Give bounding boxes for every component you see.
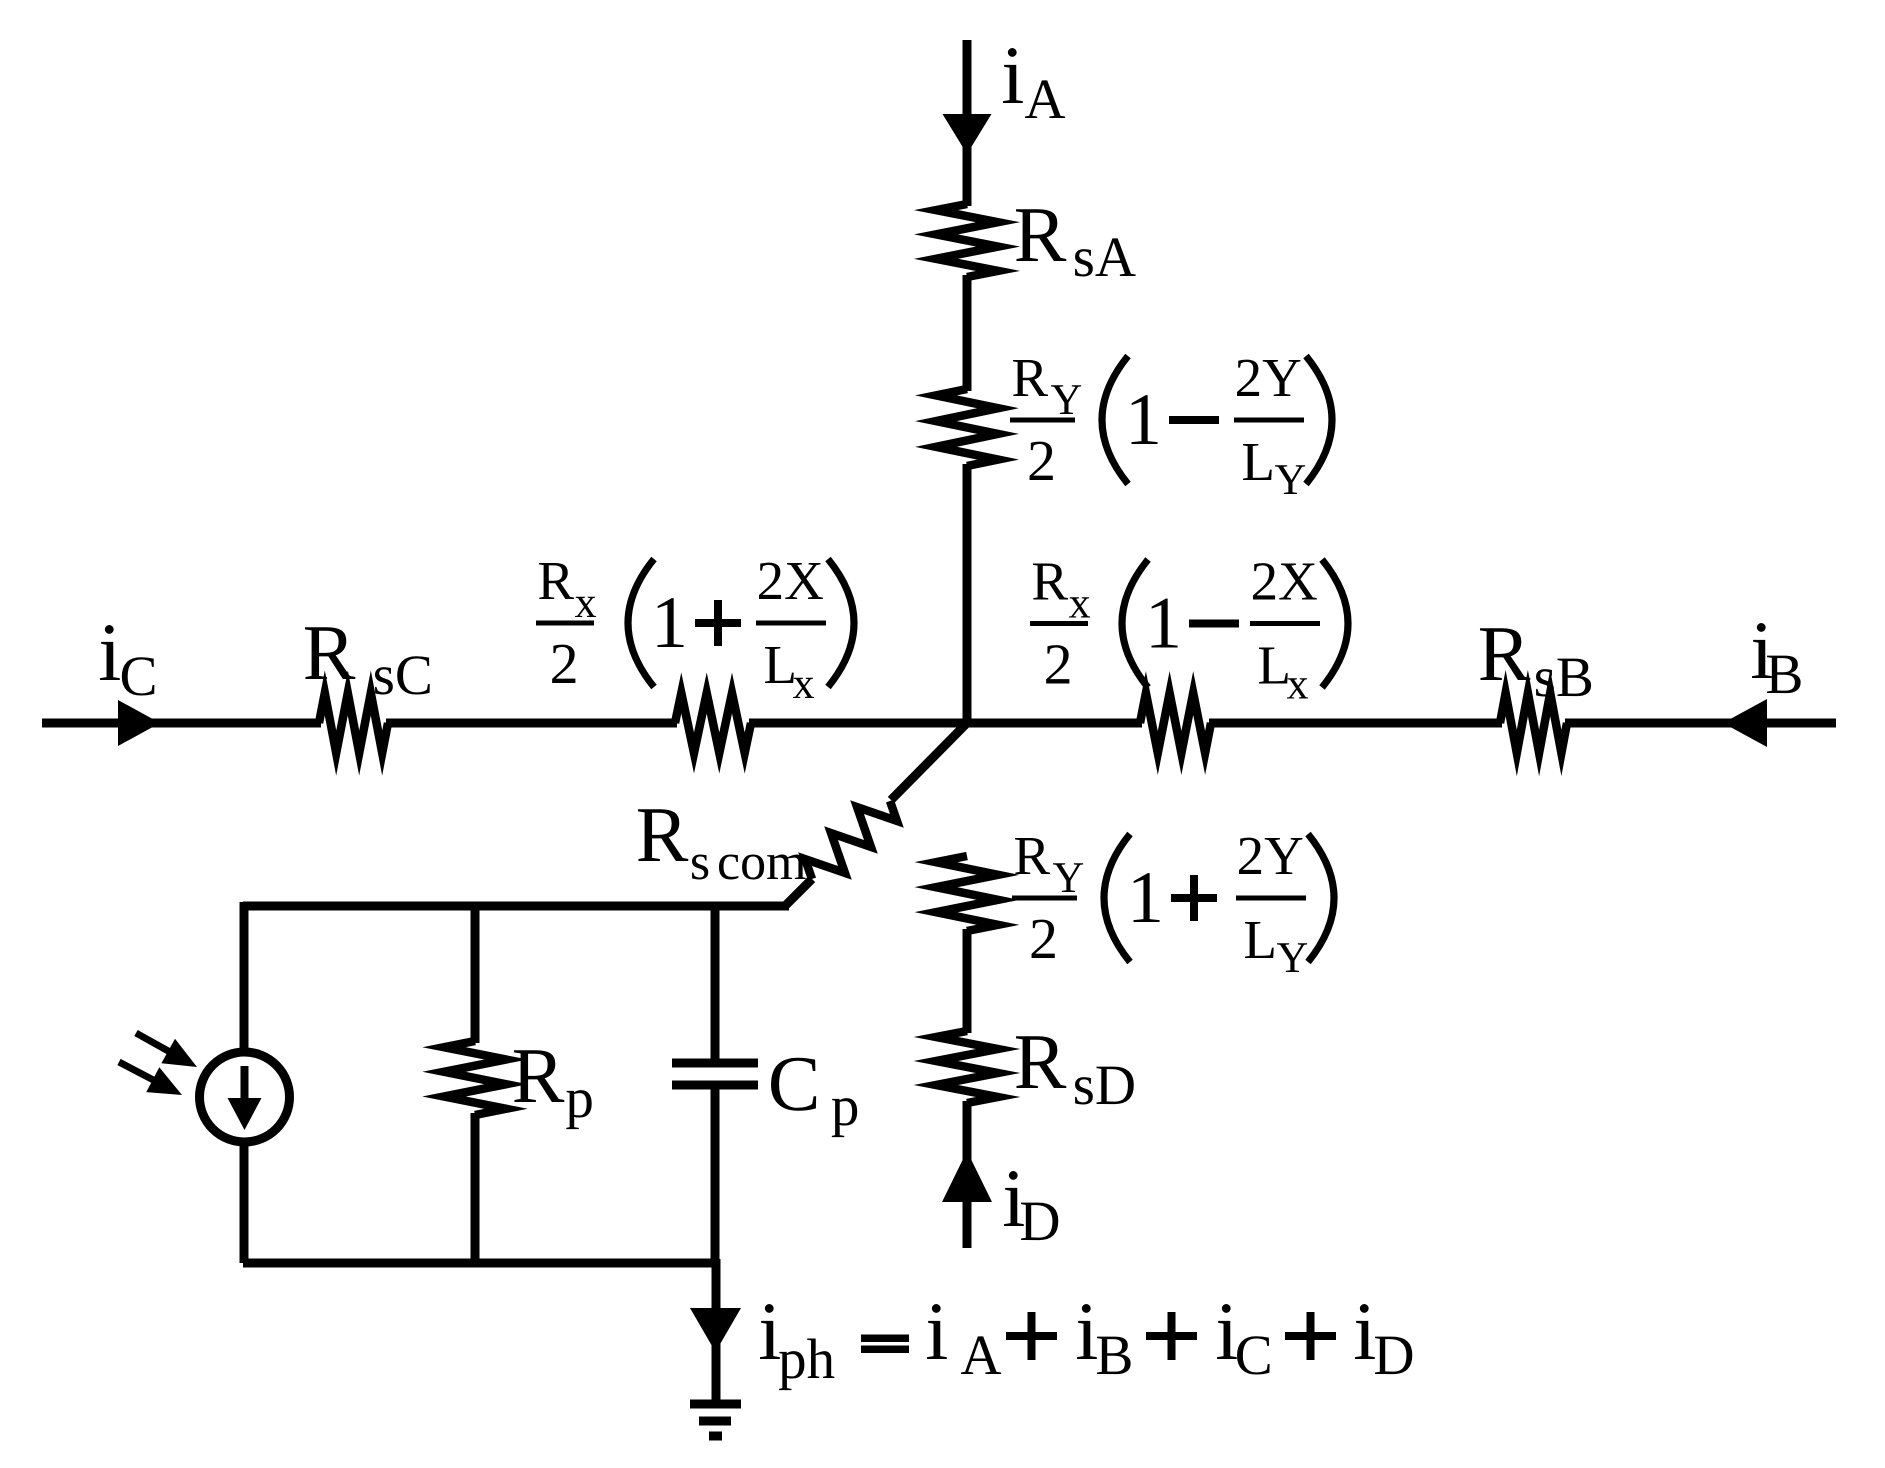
current arrow iC (rightward)	[118, 700, 160, 746]
wire: centre node to RX(1-2X/LX)	[749, 719, 1142, 728]
label iD	[1004, 1171, 1058, 1240]
capacitor Cp	[672, 1063, 758, 1085]
wire: photocurrent output stem	[712, 1259, 721, 1404]
current arrow iA (downward)	[943, 114, 992, 154]
wire: bottom branch vertical (pad D lead)	[963, 1101, 972, 1248]
wire: bottom rail	[243, 1259, 716, 1268]
wire: Rp lower lead	[471, 1113, 480, 1263]
wire: right branch horizontal (pad B lead)	[1565, 719, 1836, 728]
wire: left branch horizontal (pad C lead)	[42, 719, 321, 728]
wire: Rp upper lead	[471, 902, 480, 1043]
light arrow 1 (photon symbol)	[136, 1033, 197, 1067]
resistor RsC	[319, 693, 388, 753]
resistor RsB	[1500, 693, 1567, 753]
label RsD	[1016, 1036, 1134, 1104]
wire: between RX(1-2X/LX) and RsB	[1209, 719, 1502, 728]
resistor RX/2(1-2X/LX) right X-division	[1140, 693, 1211, 753]
value label RX/2(1+2X/LX)	[536, 559, 854, 698]
label iB	[1752, 623, 1801, 693]
wire: between RY(1+2Y/LY) and RsD	[963, 929, 972, 1033]
wire: between RsA and RY(1-2Y/LY)	[963, 275, 972, 391]
value label RY/2(1+2Y/LY)	[1012, 834, 1334, 972]
wire: between RsC and RX(1+2X/LX)	[386, 719, 677, 728]
label Cp	[771, 1058, 857, 1137]
label RsC	[305, 627, 430, 694]
label RsA	[1016, 209, 1136, 276]
resistor RsA	[936, 204, 998, 277]
wire: Cp lower lead	[711, 1085, 720, 1263]
label iC	[100, 625, 154, 696]
resistor Rs com	[805, 801, 897, 879]
resistor Rp	[444, 1041, 506, 1115]
label RsB	[1480, 628, 1591, 696]
light arrow 2 (photon symbol)	[119, 1062, 182, 1095]
current arrow iD (upward)	[942, 1151, 992, 1202]
resistor RY/2(1+2Y/LY) lower Y-division	[936, 856, 998, 931]
wire: top branch vertical (pad A lead)	[963, 40, 972, 206]
resistor RX/2(1+2X/LX) left X-division	[675, 693, 751, 753]
current source internal arrow	[228, 1066, 262, 1130]
wire: vertical into centre node	[963, 464, 972, 727]
resistor RY/2(1-2Y/LY) upper Y-division	[936, 389, 998, 466]
wire: current source lower lead	[240, 1140, 249, 1263]
current source (photodiode) circle	[200, 1052, 290, 1142]
current arrow iph (downward)	[690, 1308, 741, 1352]
label iA	[1003, 48, 1065, 118]
label Rs com	[638, 809, 806, 879]
wire: common-node diagonal to centre node	[891, 723, 967, 800]
wire: photodiode top rail	[243, 902, 789, 911]
resistor RsD	[936, 1031, 998, 1103]
current arrow iB (leftward)	[1723, 699, 1767, 747]
value label RY/2(1-2Y/LY)	[1010, 356, 1332, 494]
wire: common-node diagonal lower elbow	[785, 879, 812, 906]
ground	[690, 1404, 741, 1436]
wire: current source upper lead	[240, 902, 249, 1054]
value label RX/2(1-2X/LX)	[1030, 560, 1348, 699]
label equation iph = iA + iB + iC + iD	[760, 1304, 1412, 1390]
label Rp	[514, 1050, 592, 1129]
wire: Cp upper lead	[711, 902, 720, 1063]
